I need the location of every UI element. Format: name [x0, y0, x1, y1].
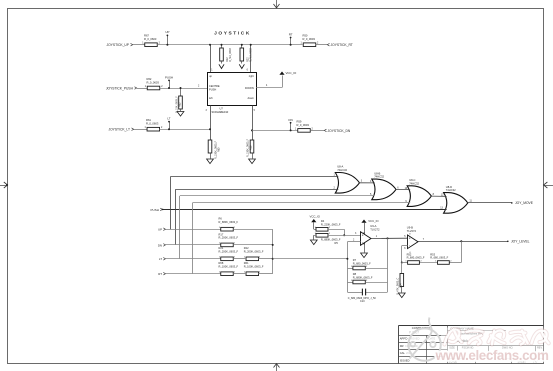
U7 pin left vertical [210, 106, 212, 141]
left centering arrow [0, 182, 8, 188]
title block grid left [399, 325, 544, 327]
resistor R8 feedback [347, 282, 353, 284]
resistor R50 [303, 43, 316, 47]
resistor R59 [298, 129, 311, 133]
svg-text:R_680_0603_F: R_680_0603_F [353, 261, 371, 265]
svg-text:R50: R50 [303, 34, 308, 38]
svg-text:APP'D: APP'D [400, 337, 408, 341]
wire LT vertical [179, 196, 181, 259]
svg-text:JOYSTICK: JOYSTICK [214, 31, 251, 37]
node PUSH flag [169, 80, 171, 88]
svg-text:R_200K_0603_F: R_200K_0603_F [219, 236, 239, 240]
svg-text:R_680K_0603_F: R_680K_0603_F [353, 275, 373, 279]
ground below R54 [398, 293, 405, 298]
svg-text:JOYSTICK_DN: JOYSTICK_DN [328, 129, 351, 133]
svg-text:TLV272: TLV272 [370, 228, 380, 232]
svg-text:R67: R67 [144, 34, 149, 38]
wire R62 to U7 pin 2 [160, 88, 207, 90]
wire feedback right vertical [387, 238, 389, 292]
svg-text:PUSH: PUSH [151, 208, 159, 212]
or-gate U8-C 74HC32 [407, 186, 431, 207]
svg-text:JOYSTICK_UP: JOYSTICK_UP [106, 43, 129, 47]
svg-text:+: + [409, 237, 411, 241]
wire LT bus to U8-B pin5 [180, 195, 375, 197]
wire feedback drop [461, 241, 463, 262]
wire JOYSTICK_LT to R61 [134, 129, 147, 131]
wire U8-D out to JOY_MOVE [467, 202, 511, 204]
watermark logo diagonal [410, 318, 432, 359]
wire DN vertical [175, 189, 177, 245]
svg-text:R61: R61 [146, 118, 151, 122]
net arrow JOY_LEVEL [507, 241, 509, 243]
svg-text:R_200K_0603_F: R_200K_0603_F [244, 250, 264, 254]
svg-text:R_680K_0603_F: R_680K_0603_F [321, 238, 341, 242]
svg-text:right: right [249, 74, 254, 78]
svg-text:74HC32: 74HC32 [374, 175, 384, 179]
wire R5 to opamp + input [328, 235, 361, 237]
capacitor C10 [347, 292, 362, 294]
wire U7 down to R59 [252, 130, 298, 132]
resistor R54 [401, 263, 403, 274]
resistor R7 feedback [347, 268, 353, 270]
svg-text:JOYSTICK_PUSH: JOYSTICK_PUSH [106, 86, 134, 90]
svg-text:RT: RT [289, 33, 293, 37]
wire JOYSTICK_UP to R67 [133, 44, 145, 46]
wire R50 to JOYSTICK_RT [316, 44, 327, 46]
svg-text:R_680_0603_F: R_680_0603_F [407, 256, 425, 260]
wire UP vertical [170, 176, 172, 229]
svg-text:R_220K_0603_F: R_220K_0603_F [321, 222, 341, 226]
wire DN bus to U8-A pin2 [176, 189, 339, 191]
wire network to opamp feedback [273, 258, 348, 260]
wire U8-A out to U8-B pin4 [359, 182, 375, 184]
svg-text:R62: R62 [147, 77, 152, 81]
ground below R58 [249, 159, 256, 164]
wire opamp A - input [347, 241, 360, 243]
resistor R53 [438, 261, 450, 265]
resistor R12 (pull-up) [221, 45, 223, 48]
resistor R67 [145, 43, 158, 47]
svg-text:down: down [248, 96, 255, 100]
wire feedback row [449, 262, 461, 264]
port arrow under R22 [239, 64, 244, 68]
svg-text:R63: R63 [179, 102, 182, 107]
wire RT bus to U8-C pin9 [193, 202, 411, 204]
svg-text:JOYSTICK_LT: JOYSTICK_LT [108, 128, 130, 132]
svg-text:74HC32: 74HC32 [446, 188, 456, 192]
svg-text:R5: R5 [335, 241, 339, 245]
node RT flag [290, 38, 292, 45]
ground below opamp A [361, 253, 368, 258]
svg-text:JOY_MOVE: JOY_MOVE [515, 201, 534, 205]
wire U8-C out to U8-D pin12 [431, 195, 447, 197]
node UP flag [167, 35, 169, 44]
svg-text:left: left [209, 96, 213, 100]
resistor R61 [147, 127, 160, 131]
wire RT vertical [192, 203, 194, 274]
svg-text:CENTRE: CENTRE [209, 84, 220, 88]
svg-text:DN: DN [289, 118, 293, 122]
svg-text:R_0_0603: R_0_0603 [146, 122, 159, 126]
svg-text:R54: R54 [399, 283, 402, 288]
watermark logo eye right [430, 342, 435, 347]
svg-text:TLV272: TLV272 [407, 229, 417, 233]
bottom centering arrow [274, 364, 280, 371]
svg-text:SKRHABE010: SKRHABE010 [212, 110, 229, 114]
watermark white wash [441, 328, 544, 363]
svg-text:U7: U7 [220, 107, 224, 111]
svg-text:C10: C10 [360, 300, 365, 303]
svg-text:UP: UP [165, 30, 169, 34]
or-gate U8-A 74HC32 [335, 173, 359, 194]
power VCC_IO near U7 [279, 72, 284, 75]
svg-text:74HC32: 74HC32 [337, 168, 347, 172]
svg-text:DR: DR [400, 344, 404, 348]
or-gate U8-B 74HC32 [372, 179, 396, 200]
wire opamp B - input [402, 245, 408, 247]
net arrow JOYSTICK_LT [132, 128, 134, 131]
svg-text:LT: LT [159, 257, 162, 261]
resistor R22 (pull-up) [241, 45, 243, 48]
right centering arrow [544, 182, 553, 188]
net arrow JOYSTICK_DN [324, 129, 326, 132]
wire U7 DOWN pin to VCC [256, 87, 282, 89]
svg-text:U9-A: U9-A [370, 224, 376, 228]
ground below R63 [177, 112, 184, 117]
node DN flag [290, 123, 292, 131]
or-gate U8-D 74HC32 [444, 193, 468, 214]
svg-text:R_100K_0603_F: R_100K_0603_F [219, 264, 239, 268]
svg-text:DATE: DATE [429, 337, 436, 341]
top centering arrow [274, 0, 280, 8]
wire network right vertical [272, 229, 274, 274]
svg-text:DN: DN [158, 243, 162, 247]
svg-text:RT: RT [158, 272, 162, 276]
wire feedback left vertical [347, 242, 349, 292]
svg-text:LT: LT [167, 117, 170, 121]
node LT flag [169, 122, 171, 130]
op-amp U9-A [361, 232, 372, 246]
U7 pin down vertical [252, 106, 254, 141]
watermark logo circle [408, 328, 440, 360]
svg-text:VCC_IO: VCC_IO [310, 215, 321, 219]
wire R5 to ground [314, 235, 316, 237]
svg-text:R_0_0603: R_0_0603 [147, 80, 160, 84]
svg-text:ISSUED: ISSUED [400, 358, 410, 362]
svg-text:CAL: CAL [400, 351, 406, 355]
resistor R62 [147, 86, 160, 90]
svg-text:+: + [362, 233, 364, 237]
joystick U7 box [208, 73, 257, 106]
resistor R58 (down pulldown) [250, 140, 254, 153]
wire U8-B out to U8-C pin10 [395, 188, 410, 190]
wire R59 to JOYSTICK_DN [310, 130, 324, 132]
ground stem opamp A [364, 243, 366, 252]
svg-text:R_0_0603: R_0_0603 [144, 37, 157, 41]
resistor R4 [316, 228, 328, 232]
op-amp U9-B [408, 235, 419, 249]
resistor R60 (left pulldown) [208, 140, 212, 153]
svg-text:R60: R60 [218, 147, 221, 152]
wire R61 to U7 left pin [160, 129, 210, 131]
svg-text:R_680K_0603_F: R_680K_0603_F [219, 220, 239, 224]
svg-text:JOYSTICK_RT: JOYSTICK_RT [331, 43, 353, 47]
resistor R5 [316, 234, 328, 238]
svg-text:PUSH: PUSH [209, 87, 216, 91]
wire JOYSTICK_PUSH to R62 [137, 88, 147, 90]
wire R4 to + node [328, 229, 344, 231]
svg-text:VCC_IO: VCC_IO [368, 219, 379, 223]
U7 pin right (top-right) [250, 45, 252, 72]
svg-text:R58: R58 [250, 145, 253, 150]
wire VCC to R4 [314, 229, 316, 231]
svg-text:VCC_IO: VCC_IO [286, 71, 298, 75]
svg-text:R_100K_0603_F: R_100K_0603_F [244, 264, 264, 268]
svg-text:PUSH: PUSH [165, 75, 173, 79]
svg-text:R_NU_0603: R_NU_0603 [229, 48, 232, 62]
svg-text:R59: R59 [297, 119, 302, 123]
wire opamp B output [418, 241, 508, 243]
resistor R52 [408, 261, 420, 265]
svg-text:74HC32: 74HC32 [409, 181, 419, 185]
watermark logo eye left [410, 342, 415, 347]
svg-text:JOY_LEVEL: JOY_LEVEL [511, 240, 530, 244]
net arrow JOYSTICK_RT [327, 43, 329, 46]
wire UP bus to U8-A pin1 [171, 176, 338, 178]
port arrow under R12 [219, 64, 224, 68]
svg-text:UP: UP [158, 228, 162, 232]
resistor R63 (push pulldown) [180, 88, 182, 96]
ground below R5 [310, 240, 317, 245]
svg-text:R_680_0603_F: R_680_0603_F [430, 256, 448, 260]
net arrow JOY_MOVE [511, 202, 513, 204]
U7 pin up (top-left) [210, 45, 212, 72]
watermark chinese characters [444, 329, 461, 344]
power VCC_IO opamp A [361, 220, 366, 223]
title block grid right [447, 330, 506, 332]
svg-text:www.elecfans.com: www.elecfans.com [435, 348, 549, 363]
ground below R60 [207, 159, 214, 164]
wire UP bus [157, 44, 302, 46]
svg-text:U9-B: U9-B [407, 226, 413, 230]
svg-text:R_200K_0603_F: R_200K_0603_F [219, 250, 239, 254]
svg-text:R_0_0603: R_0_0603 [297, 123, 310, 127]
svg-text:R_0_0603: R_0_0603 [303, 37, 316, 41]
wire opamp A output [371, 237, 408, 239]
net arrow JOYSTICK_UP [131, 43, 133, 46]
svg-text:DOWN: DOWN [245, 86, 254, 90]
wire PUSH to U8-D pin13 [163, 209, 447, 211]
net arrow JOYSTICK_PUSH [135, 87, 137, 90]
